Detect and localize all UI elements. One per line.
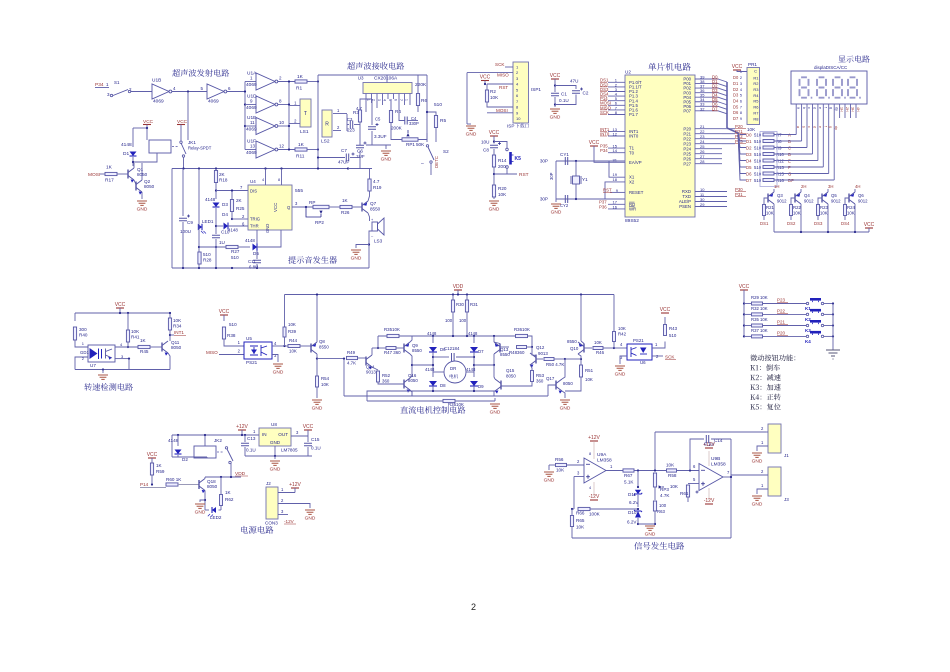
wire P2.2 [695,138,722,140]
wire K3 out [824,325,834,327]
svg-text:U6: U6 [640,360,646,365]
wire left leg mid [432,352,434,377]
resistor R65 [570,516,573,527]
optocoupler U6 PS21 [627,344,652,360]
wire VCC to contact [180,125,182,142]
resistor R43 [664,325,667,336]
title ultrasonic receive circuit [347,62,404,70]
resistor R21 [763,205,766,216]
7-segment digit 1 [800,77,809,97]
svg-text:GND: GND [137,207,148,213]
resistor R41 [126,330,129,342]
svg-text:SCK: SCK [665,355,675,360]
svg-text:PSEN: PSEN [679,204,691,209]
wire feedback to zeners [590,508,638,510]
svg-text:MOSI: MOSI [88,172,100,178]
svg-text:Q12: Q12 [536,345,545,350]
svg-text:10K: 10K [747,127,756,132]
svg-text:4: 4 [274,341,277,346]
wire P1.0 [608,81,625,83]
wire P0.0 [695,78,718,80]
svg-text:D1: D1 [733,81,739,86]
wire coil bottom [206,457,208,458]
svg-text:2: 2 [471,602,476,612]
svg-text:VCC: VCC [115,302,126,308]
underline [600,135,607,137]
wire to C3 [347,124,349,126]
junction [473,335,475,337]
LED LED2 [212,507,216,513]
svg-text:1K: 1K [298,142,305,148]
svg-text:7: 7 [740,105,742,109]
svg-text:11: 11 [250,120,255,125]
wire leg down [411,391,413,396]
capacitor C13 [241,443,249,445]
wire Q4 collector [800,189,802,192]
svg-text:Q10: Q10 [570,346,579,351]
resistor R35 10K [387,334,399,337]
svg-text:4: 4 [262,178,264,182]
wire to LED2 [205,509,209,511]
svg-text:1: 1 [106,82,109,87]
terminal K3 a [806,324,808,326]
wire gnd stub [548,465,550,470]
optocoupler U7 GD1 [88,345,115,362]
svg-text:R24: R24 [847,205,855,210]
wire R5 bottom [435,128,437,143]
wire fan row 0 [738,133,746,135]
svg-text:S1: S1 [114,80,120,85]
wire Q18 collector [204,477,206,479]
wire to U1E in [245,125,256,127]
wire D4 diag [718,97,727,100]
junction [564,358,566,360]
power VCC [590,145,598,147]
svg-text:R41: R41 [131,335,140,340]
svg-text:R7: R7 [753,110,759,115]
svg-text:1: 1 [253,429,256,434]
wire Q3 collector [773,189,775,192]
title power supply circuit [241,526,273,534]
svg-text:1K: 1K [156,463,163,468]
potentiometer RP1 [402,138,418,141]
wire EA to VCC [594,146,625,162]
wire X1 jog [609,161,625,177]
svg-text:GND: GND [560,406,571,412]
wire J2 pin2 [278,504,310,509]
regulator U8 LM7805 [259,428,291,446]
wire LS3 down [369,231,372,253]
svg-text:4: 4 [589,486,591,490]
wire Q14 to R47 [372,347,386,349]
underline [712,87,719,89]
junction [689,469,691,471]
svg-text:6.2V: 6.2V [627,520,637,525]
junction [215,167,217,169]
junction [580,358,582,360]
svg-text:10K: 10K [618,326,626,331]
svg-text:D7: D7 [746,178,752,183]
svg-text:10K: 10K [760,306,768,311]
diode D1 [130,152,137,157]
svg-text:DIS: DIS [250,189,257,194]
wire Q12 emitter [530,365,532,369]
svg-text:R1: R1 [296,86,302,92]
wire RX top [318,74,427,76]
svg-text:1K: 1K [297,74,304,80]
svg-text:P07: P07 [683,108,691,113]
svg-text:R3510K: R3510K [384,327,400,332]
wire R39 bottom [284,337,286,346]
svg-text:GND: GND [544,478,555,484]
wire MISO to U5 [219,354,244,356]
wire RST row [487,83,513,85]
ground [752,496,762,500]
resistor R63 [653,501,656,511]
diode D8 [429,381,437,386]
diode D7 [470,347,478,352]
junction [743,335,745,337]
svg-text:9012: 9012 [831,199,841,204]
wire C5 bottom [371,131,373,145]
wire LED1 top [198,169,200,224]
svg-text:10K: 10K [760,317,768,322]
svg-text:10K: 10K [820,211,828,216]
resistor R29 [752,302,763,305]
wire leg down2 [493,391,495,396]
wire R61 bottom [687,497,689,502]
wire pin2 down [371,99,373,103]
optocoupler U5 PS21 [244,342,272,359]
diode D3 [213,203,220,208]
wire P2.4 [695,148,722,150]
power VCC [733,69,741,71]
wire fan row 5 [738,133,746,167]
capacitor C1 [551,93,559,95]
underline [712,83,719,85]
svg-text:P31: P31 [735,192,743,197]
resistor R46 [593,347,603,350]
svg-text:DS2: DS2 [787,221,796,226]
svg-text:1U: 1U [219,240,225,245]
underline [600,86,607,88]
svg-text:WR: WR [629,207,636,212]
wire P1.2 [608,91,625,93]
svg-text:3: 3 [577,471,580,476]
junction [215,189,217,191]
terminal K2 a [806,313,808,315]
wire Y1 bottom [575,184,577,199]
transducer LS2 [322,110,332,137]
wire gnd rail [366,144,391,146]
wire Q4 base [791,198,795,204]
potentiometer RP3 [653,473,656,487]
svg-text:–: – [371,234,374,238]
svg-text:CY1: CY1 [560,152,569,157]
underline [600,95,607,97]
resistor R36 10K [516,334,528,337]
terminal K1 a [806,302,808,304]
svg-text:R6: R6 [421,98,427,104]
wire R14 bottom [493,167,495,185]
wire R6 bottom [417,106,419,113]
capacitor C5 [368,127,376,129]
wire fan row 1 [738,133,746,141]
transistor Q5 [822,192,828,204]
svg-text:R48360: R48360 [509,350,525,355]
wire segment F [822,104,824,167]
wire contact to bus [183,157,185,169]
wire DIS [216,190,248,192]
wire R42 bottom [613,342,615,349]
svg-text:GND: GND [489,207,500,213]
wire U1B out to U1C [172,91,207,93]
wire VCC to C1 [554,79,556,92]
svg-text:D2: D2 [182,457,188,462]
wire U1C out to input bus [227,91,245,93]
svg-text:360: 360 [382,379,390,384]
resistor R34 [168,318,171,330]
wire +12V to opamp [593,441,595,459]
wire emitter bus [774,231,869,233]
junction [244,125,246,127]
junction [198,167,200,169]
underline [600,130,607,132]
polarity mark [376,123,379,126]
wire U9B out [723,476,731,478]
svg-text:TRIG: TRIG [250,217,260,222]
svg-text:+12V: +12V [289,482,301,488]
svg-text:4.7K: 4.7K [660,493,670,498]
svg-text:-12V: -12V [589,494,600,500]
wire to C2 top [555,86,576,90]
svg-text:R23: R23 [820,205,828,210]
wire digit 2 common [844,104,846,118]
svg-text:4: 4 [173,86,176,91]
power -12V [590,499,598,501]
transistor Q10 [578,342,584,354]
wire D1 anode [132,128,134,147]
svg-text:5: 5 [740,94,742,98]
wire to gnd [356,245,369,249]
power VCC [304,429,312,431]
wire Q13 collector [493,354,495,365]
svg-text:D9: D9 [478,384,484,389]
svg-text:DS1: DS1 [760,221,769,226]
svg-text:+12V: +12V [236,424,248,430]
ground [195,504,205,508]
connector J1 [768,424,781,453]
svg-text:PS21: PS21 [633,338,644,343]
transistor Q6 [849,192,855,204]
transistor Q18 [199,479,205,491]
wiper RP3 [659,485,662,488]
svg-text:4069: 4069 [246,127,257,133]
svg-text:R40: R40 [79,333,88,338]
wire P34 stub [95,87,109,89]
svg-text:CX20106A: CX20106A [374,76,398,82]
wire Q3 emitter [773,204,775,232]
svg-text:510: 510 [754,171,762,176]
wire R52 to Q16 base [378,383,404,385]
svg-text:RP: RP [309,200,315,205]
power VCC [148,457,156,459]
wire P1.6 [608,109,625,111]
svg-text:D2: D2 [746,145,752,150]
switch S2 [428,147,434,160]
wire Q2 collector up [141,163,143,180]
wire down to relay contact [187,92,189,141]
svg-text:VCC: VCC [589,140,600,146]
junction [637,486,639,488]
junction [432,390,434,392]
svg-text:JK1: JK1 [188,140,196,145]
ground [273,364,283,368]
svg-text:10K: 10K [289,349,297,354]
svg-text:0.1U: 0.1U [559,98,569,103]
underline [600,109,607,111]
junction [102,368,104,370]
wire relay bottom [172,456,207,458]
junction [230,476,232,478]
svg-text:GND: GND [645,532,656,538]
svg-text:Q3: Q3 [777,193,783,198]
svg-text:T0: T0 [629,150,635,155]
junction [220,476,222,478]
svg-text:3: 3 [274,353,277,358]
svg-text:1: 1 [281,487,284,492]
wire C8 to R14 [493,149,495,155]
svg-text:+12V: +12V [588,435,600,441]
wire node [565,358,581,360]
svg-text:510: 510 [203,252,211,257]
svg-text:GND: GND [490,410,501,416]
underline [284,523,296,525]
wire R60 to Q18 [178,484,199,486]
title speed detect circuit [84,383,133,391]
wire VCC stub [484,81,486,85]
wire P21 [722,133,735,135]
text note [750,374,780,381]
svg-text:D3: D3 [222,202,228,207]
svg-text:R18: R18 [219,178,228,183]
resistor R22 [790,205,793,216]
svg-text:R4: R4 [753,93,759,98]
svg-text:4069: 4069 [208,99,219,105]
underline [735,128,746,130]
wire U3 pin 8 [404,94,406,100]
svg-text:R8: R8 [753,116,759,121]
inverter U1C [207,84,224,99]
junction [198,246,200,248]
terminal JK1 c [180,141,182,143]
wire opto pin3 [115,358,129,360]
svg-text:13: 13 [250,143,256,148]
svg-text:4: 4 [740,88,742,92]
junction [317,80,319,82]
wire top rail [172,434,259,436]
junction [575,198,577,200]
resistor array box [760,132,777,187]
wire C2 bottom [555,95,576,105]
wire to bottom bus [368,253,370,268]
wire R19 top feed [348,168,370,170]
text note [750,354,795,361]
svg-text:P23: P23 [777,298,786,303]
wire R63 bottom [654,511,656,524]
svg-text:D4: D4 [733,99,739,104]
svg-text:D8: D8 [440,383,446,388]
junction [432,356,434,358]
wire gnd stub [274,456,276,459]
wire R26 to Q7 [352,206,362,208]
svg-text:R53: R53 [536,373,545,378]
power +12V [238,429,246,431]
svg-text:C5: C5 [375,117,381,122]
junction [484,83,486,85]
underline [777,324,788,326]
crystal Y1 [573,176,580,184]
ground [98,375,108,379]
wire R29 to K1 [763,303,806,305]
transistor Q1 [128,168,134,180]
wire R21 bottom [763,216,765,221]
svg-text:R59: R59 [156,469,165,474]
wire C3 to R3 [354,124,360,126]
wire D2 anode [177,435,179,446]
junction [432,335,434,337]
wire dashed relay link [172,146,179,148]
svg-text:R38: R38 [227,333,236,338]
junction [204,499,206,501]
wire R67 right [634,470,666,472]
svg-text:LS2: LS2 [321,139,330,145]
svg-text:P20: P20 [777,330,786,335]
wire Q14 emitter [372,367,378,370]
svg-text:5: 5 [693,477,696,482]
wire R48 right [527,346,533,348]
svg-text:9012: 9012 [858,199,868,204]
svg-text:4069: 4069 [246,82,257,88]
wire R27 left [199,246,226,248]
wire top rail [75,312,170,314]
wire Q13 e2 [494,342,500,344]
junction [231,267,233,269]
wire to K5 top [494,142,507,149]
ground [490,404,500,408]
wire R25 bottom [231,212,233,220]
resistor R37 10K [443,399,455,402]
svg-text:10K: 10K [847,211,855,216]
wire R22 bottom [790,216,792,221]
resistor R45 [138,345,150,348]
svg-text:K4: K4 [805,339,811,344]
wire segment A [795,104,797,135]
terminal JK2 b [229,461,231,463]
wire K5 bottom [494,168,507,174]
wire H-bridge bottom rail [412,390,494,392]
wire R24 bottom [844,216,846,221]
inverter U1D [256,96,275,113]
wire D1 diag [718,84,727,87]
wire U1D out [278,104,289,106]
terminal JK2 a [225,447,227,449]
wire R20 bottom [493,197,495,199]
wire buttons to gnd [832,304,834,351]
ground [489,201,499,205]
junction [743,313,745,315]
wire X2 row [556,198,625,200]
